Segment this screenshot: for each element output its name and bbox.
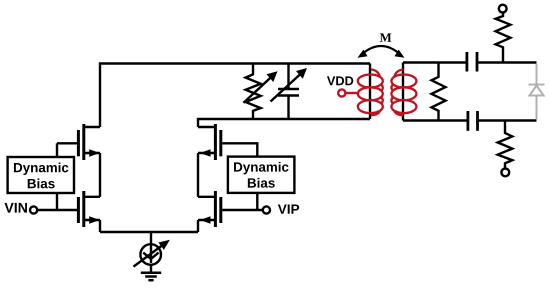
current source I1 (variable tail source)	[134, 240, 170, 267]
resistor RV1 (variable, tank)	[244, 64, 278, 120]
capacitor CV1 (variable, tank)	[271, 64, 308, 120]
wire bias box right output down to VIP node	[256, 193, 258, 210]
Dynamic Bias box left	[8, 157, 74, 193]
transistor M2 (left cascode device)	[78, 124, 100, 160]
wire left cascode link	[99, 153, 101, 197]
wire right source to tail	[197, 220, 199, 232]
resistor R3 (bottom port)	[498, 121, 513, 177]
wire bottom output	[478, 119, 537, 121]
wire gate lead M2 from bias box	[57, 142, 77, 144]
node VDD center tap	[327, 76, 353, 85]
wire left source to tail	[99, 220, 101, 232]
wire secondary bottom rail	[403, 119, 467, 121]
wire gate lead M4 to bias box right	[222, 143, 257, 157]
resistor R1 (secondary load)	[432, 63, 446, 121]
diode D1 (antenna branch, grey)	[529, 64, 545, 119]
wire VIN to gate M1	[37, 209, 77, 211]
wire right cascode link	[197, 153, 199, 197]
Dynamic Bias box right	[228, 157, 295, 193]
label M (mutual coupling)	[380, 33, 392, 41]
capacitor C2 (bottom output)	[468, 111, 478, 131]
wire tail stub	[150, 232, 152, 244]
transformer T1 primary wire	[369, 64, 371, 120]
wire top output	[477, 61, 537, 63]
node VIP terminal	[222, 209, 263, 211]
node VIN terminal	[4, 203, 27, 213]
capacitor C1 (top output)	[467, 52, 477, 72]
wire secondary top rail	[403, 61, 466, 63]
resistor R2 (top port)	[496, 5, 511, 63]
wire top rail (drain of left cascode to transformer primary top)	[100, 64, 370, 128]
wire bias box left output down to VIN node	[56, 193, 58, 210]
transformer T1 secondary wire	[402, 63, 404, 121]
coupling arrow	[358, 46, 405, 58]
transformer T1 primary winding	[358, 69, 383, 115]
transistor M3 (right input device, mirrored)	[198, 191, 221, 227]
transistor M1 (left input device)	[78, 191, 100, 227]
ground	[141, 265, 161, 280]
wire mid rail (drain of right cascode to transformer primary bottom)	[198, 119, 370, 127]
transistor M4 (right cascode device, mirrored)	[198, 124, 221, 160]
transformer T1 secondary winding	[391, 69, 416, 115]
wire tail rail	[100, 231, 198, 233]
